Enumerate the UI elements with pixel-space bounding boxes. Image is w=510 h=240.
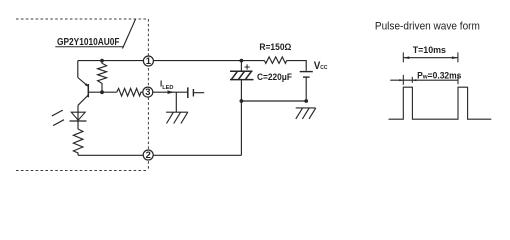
wire Vcc terminal down to ground node (305, 77, 307, 101)
transistor Q1 base bar (87, 84, 89, 97)
T dim arrowhead right (452, 56, 458, 59)
junction dots (85, 59, 308, 103)
Pw dimension left tick (402, 75, 404, 85)
svg-text:R=150Ω: R=150Ω (259, 42, 291, 52)
svg-text:1: 1 (146, 55, 151, 66)
capacitor C=220uF plates (230, 70, 253, 72)
wire bottom rail right of node 2 (153, 154, 241, 156)
Pw arrowhead right (412, 79, 416, 81)
svg-text:3: 3 (145, 86, 150, 97)
I_LED arrowhead (168, 90, 174, 94)
LED D1 cathode bar (70, 120, 87, 122)
junction R1 top (100, 59, 104, 63)
svg-text:2: 2 (146, 149, 151, 160)
resistor R2 (horizontal, to pin 3) (117, 88, 144, 96)
T dim arrowhead left (403, 56, 409, 59)
capacitor bottom lead (240, 80, 242, 101)
wire rail to R (241, 60, 264, 62)
capacitor C1 top lead (240, 61, 242, 72)
transistor Q1 base lead (88, 91, 116, 93)
transistor Q1 riser to rail (77, 61, 79, 78)
junction ground bus right (304, 99, 308, 103)
svg-text:C=220μF: C=220μF (257, 72, 292, 82)
svg-text:Pulse-driven wave form: Pulse-driven wave form (375, 21, 480, 33)
Pw dimension right tick (411, 77, 413, 83)
T dimension left tick (402, 52, 404, 62)
Vcc terminal narrow bar (303, 76, 310, 78)
light emission stroke 1 (52, 110, 63, 116)
T dimension right tick (457, 52, 459, 62)
dashed box right edge (147, 19, 149, 171)
junction cap top (240, 59, 244, 63)
svg-text:GP2Y1010AU0F: GP2Y1010AU0F (57, 37, 120, 48)
node 1 (143, 55, 153, 66)
waveform pulse train (389, 87, 492, 119)
wire ground bus (241, 100, 306, 102)
drive terminal tall bar (187, 87, 189, 98)
dashed box bottom edge (16, 170, 148, 172)
LED lead from emitter (77, 105, 79, 129)
leader line from label to box (123, 19, 136, 48)
wire bottom rail left of node 2 (78, 154, 144, 156)
junction R1 bottom / base (100, 90, 104, 94)
node 3 (143, 86, 153, 97)
transistor Q1 collector diagonal (to LED) (78, 95, 88, 105)
resistor R=150ohm (265, 57, 287, 64)
transistor Q1 emitter diagonal (from V-LED rail) (78, 78, 88, 87)
ground (LED drive) (166, 111, 188, 113)
wire pin3 to drive terminal (152, 91, 187, 93)
wire top rail (78, 60, 242, 62)
junction cap bottom (240, 99, 244, 103)
node 2 (143, 149, 153, 160)
wire R to Vcc corner (287, 61, 307, 71)
resistor R3 (vertical, below LED) (73, 129, 83, 155)
Pw arrowhead left (399, 79, 403, 81)
dashed box top edge (16, 18, 148, 20)
drive terminal short bar (192, 89, 194, 97)
T dimension arrow line (403, 57, 458, 59)
transistor Q1 emitter arrowhead (85, 83, 88, 86)
wire cap node down to bottom rail (240, 101, 242, 155)
ground right (296, 107, 316, 109)
wire drop to LED ground (175, 92, 177, 112)
Pw dimension line (390, 79, 458, 81)
LED D1 triangle (71, 112, 85, 120)
label underline (55, 46, 123, 48)
light emission stroke 2 (53, 120, 64, 126)
Vcc terminal wide bar (300, 71, 313, 73)
Pw dimension end tick at pulse2 edge (457, 76, 459, 84)
drive terminal lead (193, 92, 204, 94)
plus sign (245, 64, 250, 69)
svg-text:T=10ms: T=10ms (413, 45, 446, 55)
resistor R1 (vertical, bias) (98, 61, 107, 93)
